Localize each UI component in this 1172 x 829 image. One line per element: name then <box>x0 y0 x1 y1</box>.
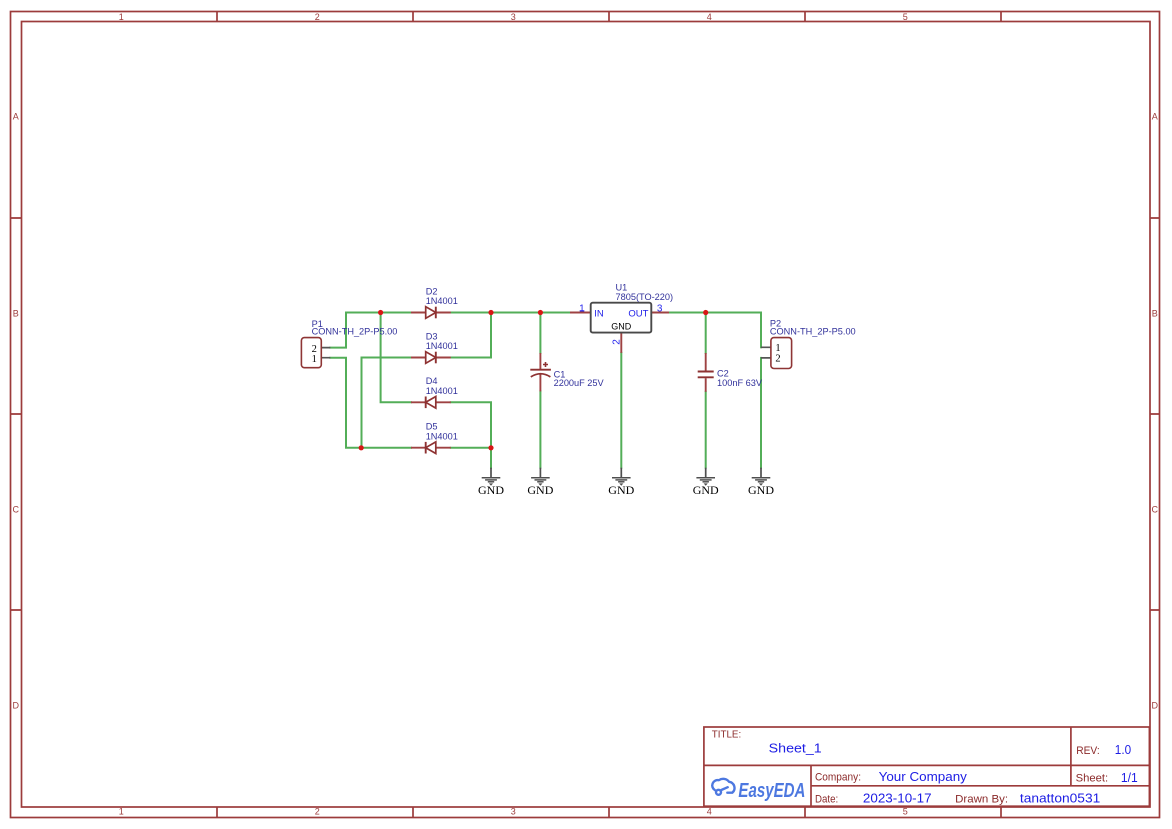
svg-text:D3: D3 <box>426 331 438 341</box>
svg-text:D5: D5 <box>426 422 438 432</box>
svg-text:C: C <box>1151 504 1158 514</box>
svg-text:2: 2 <box>775 353 780 364</box>
svg-text:GND: GND <box>608 483 634 497</box>
svg-text:GND: GND <box>478 483 504 497</box>
svg-text:2200uF 25V: 2200uF 25V <box>554 378 605 388</box>
svg-text:Your Company: Your Company <box>879 770 968 784</box>
svg-text:1N4001: 1N4001 <box>426 386 458 396</box>
svg-text:5: 5 <box>903 12 908 22</box>
svg-text:C: C <box>12 504 19 514</box>
svg-text:B: B <box>13 308 19 318</box>
svg-text:Date:: Date: <box>815 794 838 806</box>
svg-text:1.0: 1.0 <box>1115 743 1131 757</box>
svg-text:B: B <box>1152 308 1158 318</box>
svg-text:4: 4 <box>707 807 712 817</box>
svg-text:1/1: 1/1 <box>1121 771 1138 785</box>
svg-text:D4: D4 <box>426 376 438 386</box>
svg-text:3: 3 <box>511 12 516 22</box>
svg-text:GND: GND <box>748 483 774 497</box>
svg-text:D2: D2 <box>426 286 438 296</box>
svg-text:1N4001: 1N4001 <box>426 431 458 441</box>
svg-text:GND: GND <box>527 483 553 497</box>
svg-text:IN: IN <box>594 308 604 319</box>
svg-text:tanatton0531: tanatton0531 <box>1020 792 1100 806</box>
svg-text:Sheet:: Sheet: <box>1076 773 1109 785</box>
svg-text:1: 1 <box>119 807 124 817</box>
svg-text:100nF 63V: 100nF 63V <box>717 378 763 388</box>
svg-text:2: 2 <box>315 807 320 817</box>
svg-text:OUT: OUT <box>628 308 648 319</box>
svg-text:D: D <box>12 700 19 710</box>
svg-text:REV:: REV: <box>1076 745 1100 757</box>
svg-text:1: 1 <box>775 343 780 354</box>
svg-text:CONN-TH_2P-P5.00: CONN-TH_2P-P5.00 <box>312 326 398 336</box>
svg-text:2023-10-17: 2023-10-17 <box>863 792 932 806</box>
svg-text:2: 2 <box>315 12 320 22</box>
svg-text:3: 3 <box>511 807 516 817</box>
svg-text:EasyEDA: EasyEDA <box>738 780 805 802</box>
svg-text:D: D <box>1151 700 1158 710</box>
svg-text:2: 2 <box>612 339 623 345</box>
svg-text:Company:: Company: <box>815 771 861 783</box>
svg-text:7805(TO-220): 7805(TO-220) <box>616 292 674 302</box>
svg-text:U1: U1 <box>616 282 628 292</box>
svg-text:1N4001: 1N4001 <box>426 296 458 306</box>
svg-text:4: 4 <box>707 12 712 22</box>
svg-text:1: 1 <box>579 303 585 314</box>
svg-text:GND: GND <box>693 483 719 497</box>
svg-text:A: A <box>13 111 19 121</box>
svg-text:Sheet_1: Sheet_1 <box>769 740 822 755</box>
svg-text:1: 1 <box>312 354 317 365</box>
svg-text:5: 5 <box>903 807 908 817</box>
svg-text:1N4001: 1N4001 <box>426 341 458 351</box>
svg-text:A: A <box>1152 111 1158 121</box>
svg-text:TITLE:: TITLE: <box>712 729 741 740</box>
svg-text:3: 3 <box>657 303 663 314</box>
svg-text:CONN-TH_2P-P5.00: CONN-TH_2P-P5.00 <box>770 326 856 336</box>
svg-text:1: 1 <box>119 12 124 22</box>
svg-text:GND: GND <box>611 322 632 332</box>
svg-text:Drawn By:: Drawn By: <box>955 794 1008 806</box>
